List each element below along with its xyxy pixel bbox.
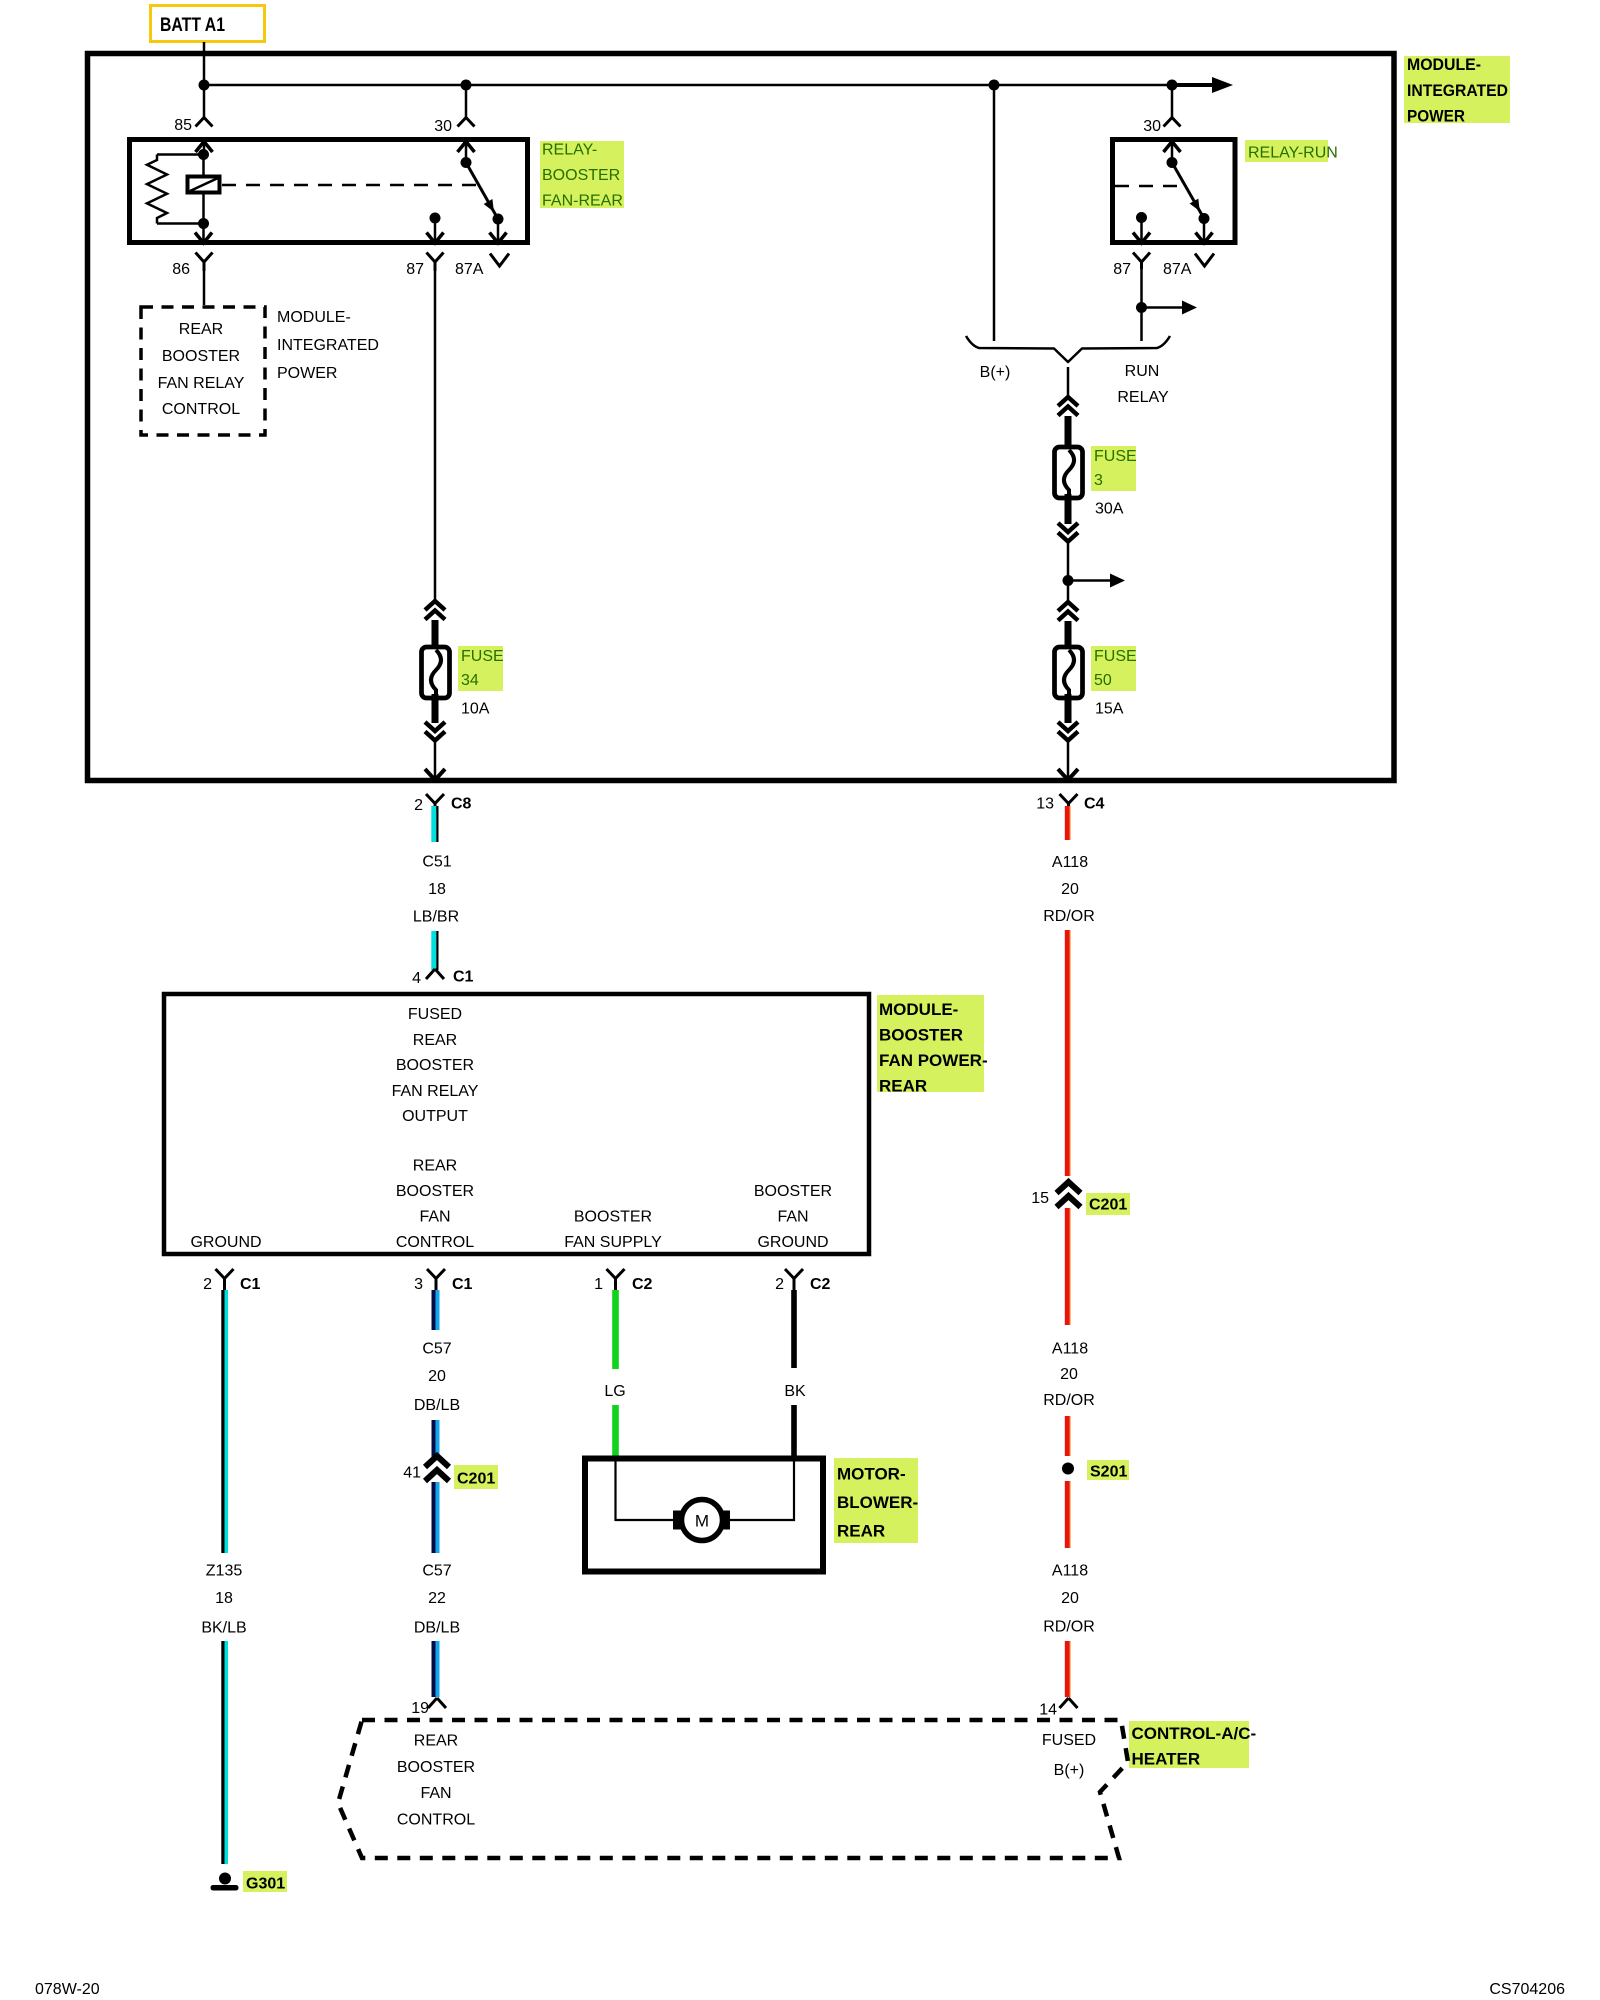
svg-text:CS704206: CS704206 <box>1489 1981 1565 1998</box>
wire C57 DB/LB seg4 <box>432 1641 436 1697</box>
wire BK ground seg1 <box>791 1290 797 1368</box>
wire A118 RD/OR seg4 <box>1065 1416 1070 1456</box>
svg-text:FAN: FAN <box>419 1209 450 1226</box>
svg-text:30A: 30A <box>1095 501 1124 518</box>
svg-text:C201: C201 <box>457 1471 495 1488</box>
svg-text:20: 20 <box>1060 1366 1078 1383</box>
svg-text:C1: C1 <box>453 969 474 986</box>
svg-text:87A: 87A <box>455 261 484 278</box>
splice S201 <box>1062 1463 1074 1475</box>
svg-text:18: 18 <box>428 881 446 898</box>
svg-text:BOOSTER: BOOSTER <box>397 1759 475 1776</box>
svg-text:C8: C8 <box>451 796 472 813</box>
svg-text:2: 2 <box>414 797 423 814</box>
svg-text:1: 1 <box>594 1276 603 1293</box>
relay coil (resistor + core) <box>157 153 204 156</box>
svg-text:87: 87 <box>1113 261 1131 278</box>
svg-text:87: 87 <box>406 261 424 278</box>
svg-text:3: 3 <box>414 1276 423 1293</box>
connector 41 C201 chevrons <box>425 1456 449 1481</box>
svg-text:FAN-REAR: FAN-REAR <box>542 193 623 210</box>
svg-text:4: 4 <box>412 970 421 987</box>
svg-text:19: 19 <box>411 1700 429 1717</box>
node bus junction at pin30 wire <box>461 80 472 91</box>
connector 87 Y (relay-run) <box>1133 253 1150 270</box>
wire C57 DB/LB seg3 <box>432 1482 436 1553</box>
motor M armature <box>673 1511 684 1530</box>
svg-text:C1: C1 <box>240 1276 261 1293</box>
label highlight MODULE-INTEGRATED POWER <box>1404 56 1510 123</box>
svg-text:41: 41 <box>403 1465 421 1482</box>
connector 2 C1 <box>216 1269 234 1291</box>
connector 87A V <box>490 254 509 267</box>
wire pin 86 to control box <box>203 271 206 305</box>
connector 15 C201 chevrons <box>1057 1182 1081 1207</box>
wire B(+) drop to brace <box>993 85 996 341</box>
svg-text:FUSED: FUSED <box>1042 1732 1096 1749</box>
wire fuse50 to box edge <box>1067 740 1070 778</box>
connector 87 Y <box>427 253 444 272</box>
wire C57 DB/LB seg2 <box>432 1420 436 1457</box>
svg-text:C57: C57 <box>422 1341 451 1358</box>
svg-text:DB/LB: DB/LB <box>414 1620 460 1637</box>
svg-text:A118: A118 <box>1052 1341 1088 1358</box>
svg-text:RD/OR: RD/OR <box>1043 908 1095 925</box>
switch arm toward 87A (relay-run) <box>1172 163 1204 219</box>
svg-text:LB/BR: LB/BR <box>413 909 459 926</box>
svg-text:22: 22 <box>428 1590 446 1607</box>
wire A118 RD/OR seg1 <box>1065 806 1070 840</box>
chevrons below fuse 34 <box>425 722 445 741</box>
svg-text:RUN: RUN <box>1125 363 1160 380</box>
svg-text:C1: C1 <box>452 1276 473 1293</box>
svg-text:DB/LB: DB/LB <box>414 1397 460 1414</box>
svg-text:MODULE-: MODULE- <box>879 1000 958 1019</box>
wire A118 RD/OR seg2 <box>1065 930 1070 1176</box>
svg-text:CONTROL: CONTROL <box>397 1812 475 1829</box>
svg-text:FAN POWER-: FAN POWER- <box>879 1051 988 1070</box>
svg-text:POWER: POWER <box>277 365 337 382</box>
connector 4 C1 <box>426 969 444 979</box>
label highlight C201 right <box>1086 1193 1130 1215</box>
svg-text:FUSED: FUSED <box>408 1006 462 1023</box>
chevrons below fuse 50 <box>1058 722 1078 741</box>
pin 30 entry arrow <box>1164 142 1181 153</box>
wire bus to pin 30 relay-run <box>1171 85 1174 118</box>
svg-text:OUTPUT: OUTPUT <box>402 1108 468 1125</box>
svg-text:078W-20: 078W-20 <box>35 1981 100 1998</box>
svg-text:30: 30 <box>1143 118 1161 135</box>
node fused B+ branch <box>1063 575 1074 586</box>
svg-text:CONTROL: CONTROL <box>162 401 240 418</box>
label highlight FUSE 50 <box>1091 646 1136 691</box>
svg-text:BOOSTER: BOOSTER <box>754 1183 832 1200</box>
svg-text:REAR: REAR <box>837 1522 885 1541</box>
svg-text:BOOSTER: BOOSTER <box>542 167 620 184</box>
svg-text:LG: LG <box>604 1383 625 1400</box>
svg-text:M: M <box>695 1512 709 1531</box>
svg-text:C4: C4 <box>1084 796 1105 813</box>
svg-text:20: 20 <box>1061 1590 1079 1607</box>
svg-text:20: 20 <box>1061 881 1079 898</box>
wire pin 87 down to junction <box>1140 269 1143 341</box>
relay RELAY-BOOSTER FAN-REAR box <box>130 140 528 243</box>
fuse FUSE 50 <box>1065 621 1072 650</box>
wire fuse34 to box edge <box>434 740 437 778</box>
svg-text:REAR: REAR <box>413 1032 457 1049</box>
svg-text:POWER: POWER <box>1407 107 1465 126</box>
connector 2 C2 <box>785 1269 803 1291</box>
svg-text:FAN RELAY: FAN RELAY <box>392 1083 479 1100</box>
svg-text:BOOSTER: BOOSTER <box>162 348 240 365</box>
node switch common 30 (relay-run) <box>1167 157 1178 168</box>
svg-text:RELAY: RELAY <box>1117 389 1169 406</box>
svg-text:MODULE-: MODULE- <box>277 309 351 326</box>
node coil top <box>198 149 209 160</box>
svg-text:BOOSTER: BOOSTER <box>396 1183 474 1200</box>
wire Z135 BK/LB seg1 <box>221 1290 224 1553</box>
relay-run internal dashed link <box>1115 185 1181 188</box>
wire A118 RD/OR seg5 <box>1065 1481 1070 1548</box>
wire top bus B+ <box>204 84 1172 87</box>
svg-text:RD/OR: RD/OR <box>1043 1392 1095 1409</box>
connector 14 to control box <box>1060 1698 1078 1708</box>
svg-text:14: 14 <box>1039 1702 1057 1719</box>
svg-text:G301: G301 <box>246 1876 285 1893</box>
svg-text:2: 2 <box>203 1276 212 1293</box>
svg-text:FUSE: FUSE <box>461 648 504 665</box>
brace joining B(+) and RUN RELAY <box>966 336 1170 362</box>
connector 87A V (relay-run) <box>1195 254 1214 267</box>
svg-text:B(+): B(+) <box>980 364 1011 381</box>
pin 85 coil exit arrow <box>202 224 205 242</box>
inline connector chevrons above fuse 3 <box>1058 397 1078 416</box>
motor internal leads <box>616 1461 676 1520</box>
svg-text:RELAY-: RELAY- <box>542 142 597 159</box>
connector 1 C2 <box>607 1269 625 1291</box>
svg-text:CONTROL-A/C-: CONTROL-A/C- <box>1132 1724 1257 1743</box>
svg-text:MOTOR-: MOTOR- <box>837 1465 906 1484</box>
node bus junction at pin85 wire <box>199 80 210 91</box>
connector 3 C1 <box>427 1269 445 1291</box>
fuse FUSE 3 <box>1065 416 1072 450</box>
svg-text:C2: C2 <box>632 1276 653 1293</box>
svg-text:REAR: REAR <box>414 1733 458 1750</box>
svg-text:BK: BK <box>784 1383 806 1400</box>
chevrons above fuse 34 <box>425 601 445 620</box>
svg-text:A118: A118 <box>1052 854 1088 871</box>
svg-text:20: 20 <box>428 1368 446 1385</box>
module CONTROL-A/C-HEATER dashed outline <box>338 1720 1128 1858</box>
svg-text:Z135: Z135 <box>206 1563 243 1580</box>
svg-text:RELAY-RUN: RELAY-RUN <box>1248 145 1338 162</box>
label highlight FUSE 3 <box>1091 446 1136 491</box>
node bus junction at B(+) drop <box>989 80 1000 91</box>
svg-text:A118: A118 <box>1052 1563 1088 1580</box>
wire A118 RD/OR seg3 <box>1065 1208 1070 1325</box>
module MODULE-INTEGRATED POWER outline <box>88 54 1395 781</box>
svg-text:30: 30 <box>434 118 452 135</box>
svg-text:13: 13 <box>1036 796 1054 813</box>
label highlight C201 left <box>454 1465 498 1489</box>
label highlight FUSE 34 <box>458 646 503 691</box>
svg-text:85: 85 <box>174 117 192 134</box>
module MODULE-BOOSTER FAN POWER-REAR box <box>164 994 869 1254</box>
svg-text:BATT A1: BATT A1 <box>160 14 225 36</box>
wire from BATT A1 down into box <box>203 42 206 85</box>
svg-text:15: 15 <box>1031 1190 1049 1207</box>
svg-text:GROUND: GROUND <box>190 1234 261 1251</box>
svg-text:34: 34 <box>461 672 479 689</box>
svg-text:BLOWER-: BLOWER- <box>837 1493 918 1512</box>
svg-text:CONTROL: CONTROL <box>396 1234 474 1251</box>
connector 19 to control box <box>428 1698 446 1708</box>
connector 13 C4 <box>1060 794 1078 811</box>
wire BK ground seg2 <box>791 1405 797 1460</box>
node bus junction at relay-run pin30 <box>1167 80 1178 91</box>
svg-text:C51: C51 <box>422 854 451 871</box>
BATT A1 box <box>151 6 265 42</box>
svg-text:MODULE-: MODULE- <box>1407 55 1481 74</box>
wire C57 DB/LB seg1 <box>432 1290 436 1330</box>
svg-text:50: 50 <box>1094 672 1112 689</box>
label highlight MOTOR-BLOWER-REAR <box>834 1458 918 1543</box>
wire fuse3 to junction <box>1067 541 1070 603</box>
svg-text:FUSE: FUSE <box>1094 648 1137 665</box>
module REAR BOOSTER FAN RELAY CONTROL dashed box <box>141 307 265 435</box>
svg-text:C57: C57 <box>422 1563 451 1580</box>
svg-text:C2: C2 <box>810 1276 831 1293</box>
svg-text:REAR: REAR <box>413 1158 457 1175</box>
node coil bottom <box>198 218 209 229</box>
svg-text:FAN: FAN <box>420 1785 451 1802</box>
svg-text:2: 2 <box>775 1276 784 1293</box>
node contact 87A (relay-run) <box>1199 213 1210 224</box>
svg-text:FAN: FAN <box>777 1209 808 1226</box>
svg-text:B(+): B(+) <box>1054 1762 1085 1779</box>
wire branch arrow right <box>1142 306 1184 309</box>
label highlight MODULE-BOOSTER FAN POWER-REAR <box>877 995 984 1092</box>
chevrons above fuse 50 <box>1058 602 1078 621</box>
svg-text:BK/LB: BK/LB <box>201 1620 246 1637</box>
svg-text:RD/OR: RD/OR <box>1043 1619 1095 1636</box>
node contact 87 (relay-run) <box>1136 212 1147 223</box>
wire A118 RD/OR seg6 <box>1065 1641 1070 1697</box>
connector 86 Y <box>196 253 213 272</box>
node switch common 30 <box>461 157 472 168</box>
svg-text:15A: 15A <box>1095 701 1124 718</box>
chevrons below fuse 3 <box>1058 523 1078 542</box>
ground G301 <box>219 1873 231 1885</box>
svg-text:S201: S201 <box>1090 1464 1127 1481</box>
svg-text:FAN RELAY: FAN RELAY <box>158 375 245 392</box>
node contact 87A <box>493 214 504 225</box>
relay RELAY-RUN box <box>1113 140 1236 243</box>
pin 30 entry arrow <box>458 142 475 153</box>
svg-text:FAN SUPPLY: FAN SUPPLY <box>564 1234 662 1251</box>
node run-relay branch <box>1136 302 1147 313</box>
relay internal dashed link <box>222 184 476 187</box>
svg-text:BOOSTER: BOOSTER <box>879 1026 963 1045</box>
svg-text:REAR: REAR <box>879 1077 927 1096</box>
wire bus to pin 30 left relay <box>465 85 468 118</box>
svg-text:HEATER: HEATER <box>1132 1750 1201 1769</box>
svg-text:REAR: REAR <box>179 321 223 338</box>
wire LG supply seg2 <box>612 1405 619 1460</box>
wire brace stem <box>1067 367 1070 396</box>
svg-text:10A: 10A <box>461 701 490 718</box>
motor MOTOR-BLOWER-REAR box <box>585 1459 823 1572</box>
wire pin 87 down to fuse 34 <box>434 271 437 603</box>
connector 2 C8 <box>426 794 444 811</box>
svg-text:87A: 87A <box>1163 261 1192 278</box>
wire C51 18 LB/BR lower <box>431 931 436 970</box>
svg-text:18: 18 <box>215 1590 233 1607</box>
svg-text:INTEGRATED: INTEGRATED <box>1407 81 1508 100</box>
switch arm toward 87A <box>466 163 498 220</box>
wire bus to pin 85 <box>203 85 206 118</box>
pin 85 entry arrow <box>196 142 213 153</box>
svg-text:3: 3 <box>1094 472 1103 489</box>
label highlight S201 <box>1087 1460 1129 1480</box>
svg-text:86: 86 <box>172 261 190 278</box>
svg-text:INTEGRATED: INTEGRATED <box>277 337 379 354</box>
svg-text:BOOSTER: BOOSTER <box>396 1057 474 1074</box>
fuse FUSE 34 <box>432 620 439 650</box>
svg-text:FUSE: FUSE <box>1094 448 1137 465</box>
label highlight G301 <box>243 1871 287 1892</box>
svg-text:BOOSTER: BOOSTER <box>574 1209 652 1226</box>
label highlight CONTROL-A/C-HEATER <box>1129 1721 1249 1768</box>
wire LG supply seg1 <box>612 1290 619 1369</box>
svg-text:C201: C201 <box>1089 1197 1127 1214</box>
node contact 87 <box>430 213 441 224</box>
svg-text:GROUND: GROUND <box>757 1234 828 1251</box>
label highlight RELAY-RUN <box>1245 140 1328 162</box>
label highlight RELAY-BOOSTER FAN-REAR <box>540 141 624 208</box>
wire C51 18 LB/BR upper <box>431 806 436 842</box>
wire Z135 BK/LB seg2 <box>221 1641 224 1864</box>
